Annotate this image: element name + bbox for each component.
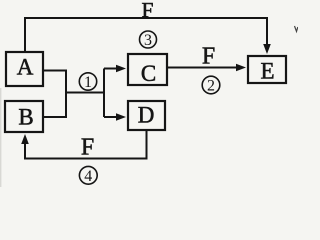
svg-text:E: E bbox=[260, 59, 274, 84]
svg-text:D: D bbox=[138, 103, 155, 128]
svg-text:3: 3 bbox=[144, 32, 152, 49]
svg-text:1: 1 bbox=[84, 74, 92, 91]
svg-text:F: F bbox=[81, 135, 94, 161]
svg-text:4: 4 bbox=[84, 168, 92, 185]
svg-text:F: F bbox=[142, 0, 154, 22]
svg-text:F: F bbox=[202, 44, 215, 70]
svg-text:2: 2 bbox=[207, 78, 215, 95]
svg-text:C: C bbox=[141, 61, 156, 86]
svg-text:B: B bbox=[18, 105, 33, 130]
svg-text:A: A bbox=[17, 55, 34, 80]
